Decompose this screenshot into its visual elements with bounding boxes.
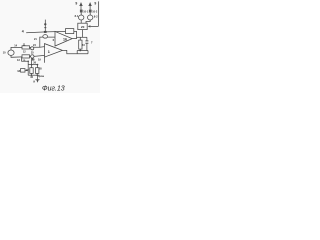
svg-text:16: 16 [63, 37, 67, 41]
wire resistor to circle [30, 46, 31, 48]
junction dot B [37, 64, 39, 66]
junction dot 5 [44, 23, 46, 25]
input rail wire y31 [26, 31, 65, 32]
bottom rail of RC block [77, 50, 88, 52]
wire square1 to mic 8-1 [80, 13, 82, 16]
node wire horizontal y37 [77, 36, 88, 38]
microphone 15 oval [8, 50, 14, 55]
svg-text:10-1: 10-1 [83, 11, 89, 14]
circle element bottom row [31, 55, 34, 58]
svg-text:фон: фон [38, 74, 44, 78]
resistor 18 [21, 69, 26, 73]
wire feedback resistor right to node [72, 31, 76, 38]
box 20 [78, 23, 87, 29]
transducer arrow symbol right [89, 2, 92, 10]
wire jog bottom row to block [22, 57, 29, 75]
junction dot rail B [37, 74, 39, 76]
capacitor mark on stub [44, 27, 46, 29]
wire circle2 to op-amp 1 [34, 55, 45, 56]
wire op-amp1 output [63, 50, 89, 53]
wire square2 to mic 8-2 [89, 13, 91, 16]
svg-text:Фиг.13: Фиг.13 [42, 85, 65, 92]
microphone 8-1 oval [79, 15, 84, 20]
capacitor 7 [86, 37, 88, 40]
wire circle2 down to resistor 27 [31, 58, 33, 68]
wire circle to op-amp 1 [34, 46, 45, 49]
wire horizontal y64.6 [28, 64, 37, 66]
resistor 27b [36, 68, 39, 74]
wire right edge vertical [97, 1, 99, 26]
row B wire [40, 37, 55, 47]
junction dot A [31, 64, 33, 66]
element 10-2 square [89, 10, 92, 13]
resistor 27a [30, 68, 33, 74]
svg-text:9: 9 [75, 1, 77, 5]
component 6 oval on row B [43, 35, 48, 39]
wire mic top to row1 [11, 47, 22, 50]
wire loop right drop [87, 51, 89, 54]
svg-text:1: 1 [48, 50, 50, 54]
svg-text:20: 20 [81, 25, 85, 29]
component on rail at junction [44, 31, 47, 33]
bottom rail [28, 74, 39, 76]
element 10-1 square [80, 10, 83, 13]
transducer arrow symbol left [79, 2, 82, 10]
microphone 8-2 oval [88, 15, 93, 20]
op-amp 16 [55, 31, 72, 46]
wire dot B down [36, 65, 38, 68]
svg-text:4: 4 [22, 30, 24, 34]
wire box 20 down to node [82, 30, 84, 38]
wire resistor 18 to vertical [25, 69, 28, 71]
op-amp 1 [45, 44, 63, 58]
wire mic 8-2 to box 20 [86, 20, 90, 23]
svg-text:10-2: 10-2 [92, 11, 98, 14]
junction dot jog [27, 61, 29, 63]
resistor 17 feedback [66, 29, 74, 34]
circle element top row [31, 47, 34, 50]
transducer arrow symbol bottom (down) [36, 75, 40, 83]
svg-text:8-2: 8-2 [94, 16, 98, 19]
stub terminal 5 [44, 20, 46, 32]
resistor 11 [22, 46, 30, 49]
wire resistors to bottom rail [31, 73, 33, 75]
svg-text:8-1: 8-1 [75, 15, 79, 18]
junction dot R22-rail [79, 50, 81, 52]
resistor 13 [22, 55, 30, 58]
wire from op-amp1 corner down [44, 57, 46, 63]
wire mic 8-1 to box 20 [80, 20, 82, 23]
svg-text:9: 9 [94, 2, 96, 6]
wire loop left drop [76, 51, 78, 54]
resistor 22 [79, 37, 81, 40]
input arrow into box 20 [90, 25, 98, 27]
wire mic bottom to row2 [11, 55, 22, 57]
junction dot rail A [31, 74, 33, 76]
wire resistor2 to circle2 [30, 56, 31, 58]
